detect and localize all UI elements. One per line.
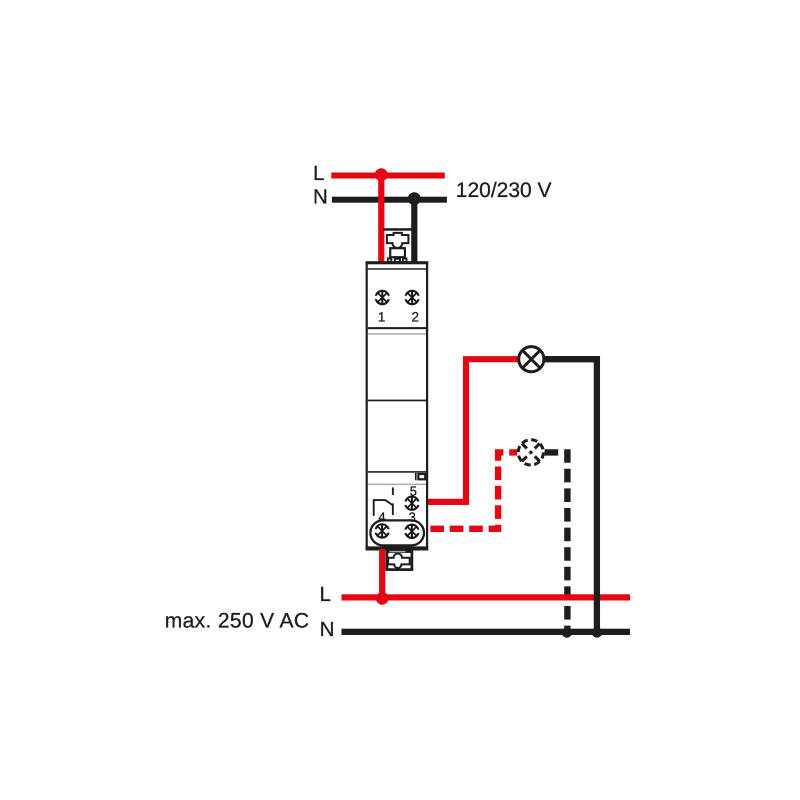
lamp L1 [519, 347, 544, 372]
din clip housing top line [383, 228, 413, 231]
junction dot on L line [375, 168, 388, 181]
indicator window [418, 474, 425, 479]
junction dot on bottom L line [376, 592, 389, 605]
svg-text:4: 4 [378, 509, 385, 524]
wire switched live drop to bottom L line [379, 549, 385, 601]
section line above contact area [368, 471, 426, 473]
junction dot L1 return on N line [592, 627, 602, 637]
svg-text:N: N [313, 186, 328, 209]
terminal screw 1 [374, 291, 390, 304]
din rail release tab (top) [387, 233, 409, 248]
svg-text:3: 3 [409, 509, 416, 524]
terminal block outline (stadium) [370, 520, 424, 545]
terminal screw 3 [404, 525, 420, 538]
lamp L2 cross (dashed) [522, 444, 540, 462]
din clip block [390, 248, 405, 257]
bottom clip gray line [390, 551, 406, 552]
lamp L2 (dashed) [518, 440, 543, 465]
lamp L1 cross [522, 350, 540, 368]
timer contact pole line [392, 487, 394, 495]
section line below terminals 1-2 [368, 327, 426, 329]
svg-text:120/230 V: 120/230 V [456, 179, 552, 202]
terminal screw 2 [404, 291, 420, 304]
relay module body [367, 263, 427, 550]
din clip foot middle [395, 259, 400, 262]
bottom clip tab [388, 554, 410, 568]
mid divider line [368, 400, 426, 402]
bottom clip housing [387, 552, 412, 570]
terminal screw 4 [374, 524, 390, 537]
svg-text:2: 2 [411, 310, 419, 325]
timer contact blade [374, 500, 394, 516]
wire N output line (black, bottom) [342, 629, 631, 635]
section line under top edge [368, 268, 426, 270]
wire live drop from L to module [378, 175, 384, 263]
timer contact fixed line [392, 503, 394, 515]
svg-text:1: 1 [378, 310, 386, 325]
gray accent line lower [368, 484, 426, 486]
indicator window tick [415, 473, 417, 480]
wire neutral drop from N to module [411, 199, 417, 263]
wire N supply line (black, top) [332, 197, 447, 203]
svg-text:N: N [320, 618, 335, 641]
svg-text:max. 250 V AC: max. 250 V AC [165, 610, 310, 633]
wire lamp L1 return (solid black) [545, 359, 597, 632]
terminal screw 5 [404, 497, 420, 510]
module top edge bar [366, 261, 429, 264]
module bottom edge bar [366, 546, 429, 550]
din clip foot right [403, 258, 407, 261]
wire lamp L1 feed (solid red) [428, 359, 517, 502]
junction dot on N line [408, 192, 421, 205]
wire lamp L2 feed (dashed red) [430, 452, 517, 528]
wire lamp L2 return (dashed black) [545, 452, 568, 632]
junction dot L2 return on N line [562, 627, 572, 637]
svg-text:L: L [313, 162, 324, 185]
svg-text:L: L [320, 583, 331, 606]
wire L supply line (red, top) [331, 173, 445, 179]
wire L output line (red, bottom) [342, 594, 631, 600]
gray accent line upper [368, 333, 426, 335]
din clip foot left [388, 258, 392, 261]
